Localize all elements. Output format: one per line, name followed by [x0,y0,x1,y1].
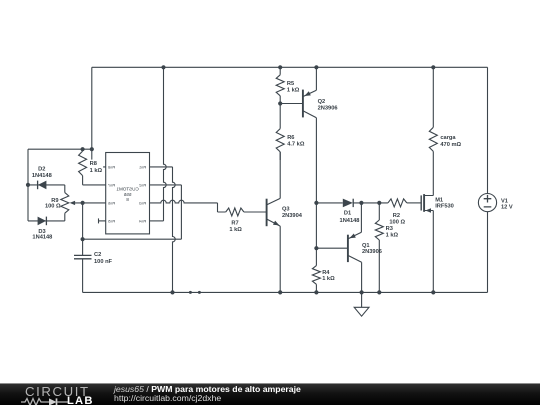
label R8 [90,161,103,174]
svg-text:8: 8 [126,197,129,202]
op-amp U1 custom 555 box [106,153,150,234]
node carga top rail [431,65,435,69]
svg-text:2N3906: 2N3906 [362,249,382,255]
svg-text:R6: R6 [287,135,294,141]
wire Pin1 ground with hops [150,167,176,293]
resistor R4 [312,248,320,292]
wire Pin2 riser [150,185,182,239]
resistor R2 [388,199,421,207]
node R5 top rail [278,65,282,69]
voltage source V1 12V [478,194,496,212]
node R3 rail [377,290,381,294]
resistor R6 [276,104,284,161]
wiper arrow R9 [70,201,106,205]
label R6 [287,135,305,148]
label C2 [94,252,113,265]
resistor carga [429,67,437,151]
label R8 halo [89,160,104,174]
svg-text:1N4148: 1N4148 [32,173,52,179]
label Q2 [318,99,338,111]
svg-text:1 kΩ: 1 kΩ [322,276,335,282]
diode D3 1N4148 [38,217,47,226]
transistor Q2 2N3906 [280,67,316,203]
svg-text:1N4148: 1N4148 [340,218,360,224]
svg-text:Pin4: Pin4 [139,220,146,224]
wire D2 row [28,184,65,186]
resistor R5 [276,67,284,103]
wire gate drive row [316,202,388,204]
node rail stray B [198,291,201,294]
label D1 [340,211,360,224]
resistor R3 [375,203,383,293]
node C2 top junction [81,237,85,241]
node Q1 collector rail [360,290,364,294]
node Q1 base R4 [314,246,318,250]
IC center label mirrored [116,187,139,203]
svg-text:Pin6: Pin6 [108,202,115,206]
node R3 tap [377,201,381,205]
wire upper-left horizontal [28,148,92,150]
node wiper junction [81,201,85,205]
wire V1 bottom lead [487,212,489,293]
resistor R7 [226,208,267,216]
wire C2 row to Pin2 riser [83,238,182,240]
svg-text:M1: M1 [435,197,443,203]
node V+/Pin8 [90,147,94,151]
svg-text:4.7 kΩ: 4.7 kΩ [287,141,305,147]
svg-text:100 Ω: 100 Ω [389,219,405,225]
svg-text:Q1: Q1 [362,243,370,249]
svg-text:100 Ω: 100 Ω [45,204,61,210]
IC pin labels mirrored [108,166,146,224]
svg-text:R3: R3 [386,226,393,232]
svg-text:IRF530: IRF530 [435,204,454,210]
svg-text:R4: R4 [322,270,330,276]
potentiometer R9 [61,185,69,221]
node rail stray A [189,291,192,294]
svg-text:1 kΩ: 1 kΩ [287,88,300,94]
node Q3 emitter rail [278,290,282,294]
node V+ rail Pin4 [161,65,165,69]
wire Q2-collector to Q1-base [315,203,317,248]
label Q3 [282,207,303,219]
label M1 [435,197,454,209]
node left rail / D2 [26,183,30,187]
resistor R8 [79,149,106,185]
label R3 [386,226,399,239]
svg-text:12 V: 12 V [501,205,513,211]
svg-text:carga: carga [440,135,456,141]
node Q2 collector gate row [314,201,318,205]
svg-text:C2: C2 [94,252,101,258]
ground [354,292,369,316]
transistor Q1 2N3906 [316,203,361,293]
svg-text:1 kΩ: 1 kΩ [90,168,103,174]
svg-text:Pin7: Pin7 [108,184,115,188]
svg-text:2N3904: 2N3904 [282,213,303,219]
label carga [440,135,461,148]
footer bar [0,383,540,405]
svg-text:R5: R5 [287,81,294,87]
label D3 [32,229,52,241]
node R8 top [81,147,85,151]
diode D2 1N4148 [38,181,47,190]
label Q1 [362,243,382,255]
label D2 [32,166,52,179]
wire bottom ground rail [83,291,488,293]
label R5 [287,81,300,94]
svg-text:Q3: Q3 [282,207,290,213]
node R4 rail [314,290,318,294]
wire far-left rail [27,149,29,221]
wire Pin3 output with hops [150,200,226,212]
svg-text:Pin3: Pin3 [139,202,146,206]
svg-text:R2: R2 [393,213,400,219]
svg-text:R8: R8 [90,161,97,167]
svg-text:Pin1: Pin1 [139,166,146,170]
transistor M1 IRF530 [421,151,433,292]
svg-text:1N4148: 1N4148 [32,234,52,240]
wire left V+ drop to Pin8 [92,67,106,167]
wire top V+ rail [92,66,488,68]
svg-text:100 nF: 100 nF [94,259,113,265]
node M1 source rail [431,290,435,294]
svg-text:Q2: Q2 [318,99,326,105]
wire wiper to C2 row [82,203,84,239]
label R7 [229,220,242,233]
svg-text:V1: V1 [501,198,508,204]
svg-text:470 mΩ: 470 mΩ [440,142,461,148]
svg-text:1 kΩ: 1 kΩ [229,227,242,233]
wire Pin4 reset to V+ with hops [150,67,167,221]
capacitor C2 [74,239,92,292]
node R5 R6 Q2-base junction [278,101,282,105]
logo CIRCUIT LAB [0,384,110,405]
node Q2 emitter rail [314,65,318,69]
diode D1 1N4148 [343,199,353,208]
node D1 cathode [359,201,363,205]
footer text [114,385,301,403]
svg-text:D1: D1 [344,211,351,217]
node Pin1 ground rail [170,290,174,294]
pin 5 NC stub [99,218,106,223]
svg-text:R7: R7 [231,220,238,226]
label R2 [389,213,405,226]
svg-text:Pin8: Pin8 [108,166,115,170]
label R4 [322,270,335,282]
label R9 [45,198,61,210]
wire V1 top lead [487,67,489,193]
svg-text:2N3906: 2N3906 [318,106,338,112]
svg-text:CUSTOM1: CUSTOM1 [116,187,139,192]
wire D3 row [28,220,65,222]
svg-text:Pin2: Pin2 [139,184,146,188]
label V1 [501,198,513,210]
transistor Q3 2N3904 [267,152,281,293]
svg-text:Pin5: Pin5 [108,220,115,224]
svg-text:1 kΩ: 1 kΩ [386,233,399,239]
svg-text:D2: D2 [38,166,45,172]
